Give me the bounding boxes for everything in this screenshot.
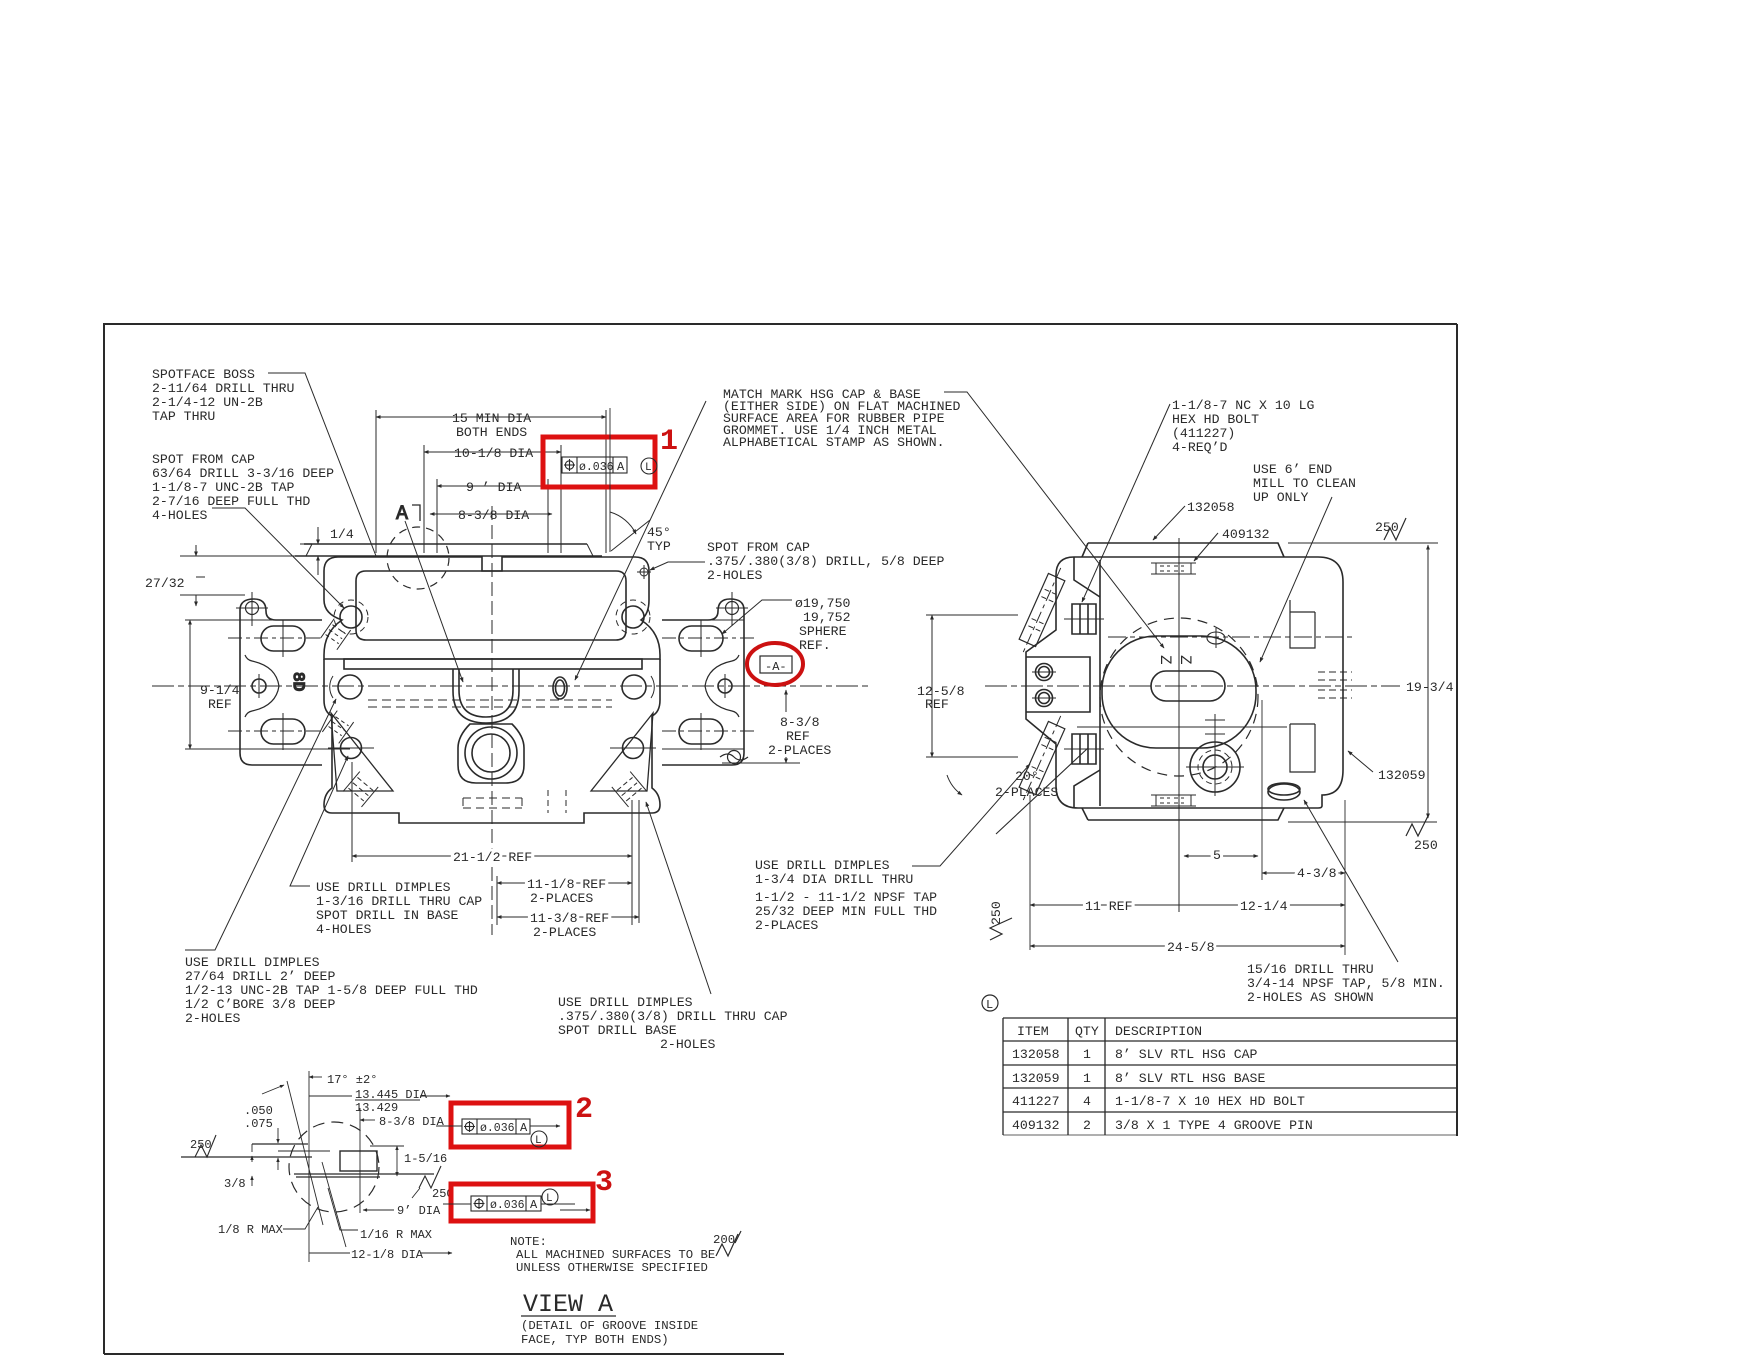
- svg-text:(DETAIL OF GROOVE INSIDE: (DETAIL OF GROOVE INSIDE: [521, 1319, 698, 1333]
- svg-text:132059: 132059: [1378, 768, 1425, 783]
- bolt boss top-left dashed thread circle: [334, 600, 368, 634]
- 13.445 limit bar: [355, 1099, 420, 1101]
- svg-text:5: 5: [1213, 848, 1221, 863]
- svg-text:1-1/2 - 11-1/2 NPSF TAP: 1-1/2 - 11-1/2 NPSF TAP: [755, 890, 937, 905]
- vertical line through x309: [308, 1071, 310, 1262]
- svg-text:1-3/4 DIA DRILL THRU: 1-3/4 DIA DRILL THRU: [755, 872, 913, 887]
- lower face line thick: [294, 1173, 434, 1175]
- svg-text:1/2 C’BORE 3/8 DEEP: 1/2 C’BORE 3/8 DEEP: [185, 997, 335, 1012]
- svg-text:1: 1: [660, 425, 678, 459]
- inner slant line: [322, 1162, 346, 1247]
- svg-text:250: 250: [1414, 838, 1438, 853]
- drain boss circle inner: [1203, 755, 1227, 779]
- svg-text:45°: 45°: [647, 525, 671, 540]
- interior vertical wall: [1099, 560, 1101, 806]
- 12-1/8 dim line: [309, 1252, 350, 1254]
- right flange C cutout: [705, 655, 739, 717]
- svg-text:3: 3: [595, 1166, 613, 1200]
- svg-text:L: L: [546, 1193, 553, 1205]
- bottom plate line: [1082, 808, 1284, 820]
- svg-text:SPOT FROM CAP: SPOT FROM CAP: [707, 540, 810, 555]
- right flange oval slot upper: [679, 626, 723, 651]
- svg-text:ALL MACHINED SURFACES TO BE: ALL MACHINED SURFACES TO BE: [516, 1248, 715, 1262]
- svg-text:1-3/16 DRILL THRU CAP: 1-3/16 DRILL THRU CAP: [316, 894, 482, 909]
- svg-text:11 REF: 11 REF: [1085, 899, 1132, 914]
- svg-text:2: 2: [1083, 1118, 1091, 1133]
- 250 finish right: [419, 1166, 441, 1188]
- fcf3 dim line: [541, 1203, 575, 1205]
- svg-text:8-3/8: 8-3/8: [780, 715, 820, 730]
- sheet border right: [1456, 324, 1458, 1136]
- svg-text:8-3/8 DIA: 8-3/8 DIA: [458, 508, 529, 523]
- svg-text:A: A: [520, 1121, 528, 1135]
- sheet border top: [104, 323, 1457, 325]
- groove pin ellipse mid-right: [553, 677, 567, 699]
- svg-text:250: 250: [190, 1138, 212, 1152]
- svg-text:USE DRILL DIMPLES: USE DRILL DIMPLES: [755, 858, 890, 873]
- dim 8-3/8 REF vertical right: [785, 690, 787, 712]
- svg-text:USE 6’ END: USE 6’ END: [1253, 462, 1332, 477]
- svg-text:Z: Z: [1176, 655, 1194, 665]
- dim 11 ref line: [1030, 904, 1179, 906]
- right view horizontal centerline: [985, 685, 1400, 687]
- svg-text:Z: Z: [1156, 655, 1174, 665]
- dim 12-1/4 line: [1179, 904, 1345, 906]
- dim 5 line: [1184, 855, 1258, 857]
- svg-text:15/16 DRILL THRU: 15/16 DRILL THRU: [1247, 962, 1374, 977]
- thread symbol mid-left: [322, 711, 353, 744]
- svg-text:2-PLACES: 2-PLACES: [533, 925, 596, 940]
- dim 8-3/8 line: [430, 513, 552, 515]
- right castellated steps: [1290, 600, 1315, 772]
- svg-text:8’ SLV RTL HSG BASE: 8’ SLV RTL HSG BASE: [1115, 1071, 1265, 1086]
- svg-text:24-5/8: 24-5/8: [1167, 940, 1215, 955]
- svg-text:19-3/4: 19-3/4: [1406, 680, 1454, 695]
- interior slant bottom: [1074, 770, 1100, 808]
- right flange top face line: [662, 619, 744, 621]
- svg-text:2-11/64 DRILL THRU: 2-11/64 DRILL THRU: [152, 381, 294, 396]
- drain boss circle outer: [1190, 742, 1240, 792]
- svg-text:2-PLACES: 2-PLACES: [768, 743, 831, 758]
- svg-text:SPOT DRILL BASE: SPOT DRILL BASE: [558, 1023, 677, 1038]
- svg-text:2-PLACES: 2-PLACES: [995, 785, 1058, 800]
- svg-text:250: 250: [1375, 520, 1399, 535]
- left gusset triangle: [331, 713, 393, 791]
- svg-text:8-3/8 DIA: 8-3/8 DIA: [379, 1115, 445, 1129]
- base body outline: [324, 659, 660, 823]
- groove pin side hole ellipse: [1268, 784, 1300, 800]
- spot dimple boss left on centerline: [338, 675, 362, 699]
- svg-text:ITEM: ITEM: [1017, 1024, 1049, 1039]
- svg-text:2-PLACES: 2-PLACES: [755, 918, 818, 933]
- angled boss lower-left: [1015, 712, 1070, 804]
- svg-text:VIEW A: VIEW A: [523, 1290, 613, 1319]
- flange centerline lower: [228, 730, 322, 732]
- pin hole lower: [1036, 690, 1053, 707]
- leader use drill dimples 1-3/4: [912, 764, 1030, 866]
- left flange C cutout: [245, 655, 279, 717]
- leader MATCH MARK right long: [944, 392, 1164, 648]
- spot dimple boss right on centerline: [622, 675, 646, 699]
- svg-text:1/16 R MAX: 1/16 R MAX: [360, 1228, 432, 1242]
- svg-text:.375/.380(3/8) DRILL THRU CAP: .375/.380(3/8) DRILL THRU CAP: [558, 1009, 788, 1024]
- center boss circle outer: [465, 727, 517, 779]
- right flange seat line: [662, 748, 744, 750]
- 1/16 R MAX leader: [328, 1188, 358, 1230]
- svg-text:L: L: [645, 462, 652, 474]
- svg-text:ALPHABETICAL STAMP AS SHOWN.: ALPHABETICAL STAMP AS SHOWN.: [723, 435, 945, 450]
- svg-text:9-1/4: 9-1/4: [200, 683, 240, 698]
- table outline: [1003, 1017, 1457, 1019]
- hidden dashed band lower: [368, 706, 612, 708]
- svg-text:REF.: REF.: [799, 638, 831, 653]
- svg-text:132058: 132058: [1187, 500, 1235, 515]
- svg-text:TYP: TYP: [647, 539, 671, 554]
- svg-text:3/8: 3/8: [224, 1177, 246, 1191]
- svg-text:SPHERE: SPHERE: [799, 624, 847, 639]
- 20 deg angle line: [996, 748, 1088, 834]
- upper face line: [252, 1143, 308, 1145]
- svg-text:1: 1: [1083, 1071, 1091, 1086]
- stadium boss around slot: [1102, 636, 1256, 748]
- spot hole small top-right: [640, 568, 648, 576]
- second face line: [278, 1150, 330, 1152]
- svg-text:1-1/8-7 UNC-2B TAP: 1-1/8-7 UNC-2B TAP: [152, 480, 295, 495]
- interior slant top: [1074, 557, 1100, 597]
- svg-text:USE DRILL DIMPLES: USE DRILL DIMPLES: [316, 880, 451, 895]
- svg-text:3/4-14 NPSF TAP, 5/8 MIN.: 3/4-14 NPSF TAP, 5/8 MIN.: [1247, 976, 1445, 991]
- center hidden notch below: [463, 798, 522, 808]
- svg-text:1/2-13 UNC-2B TAP 1-5/8 DEEP F: 1/2-13 UNC-2B TAP 1-5/8 DEEP FULL THD: [185, 983, 478, 998]
- svg-text:ø19,750: ø19,750: [795, 596, 850, 611]
- cap inner lip: [356, 571, 626, 640]
- svg-text:4-REQ’D: 4-REQ’D: [1172, 440, 1227, 455]
- right flange small hole: [718, 679, 732, 693]
- dim 1/4 vertical: [317, 527, 319, 544]
- svg-text:L: L: [535, 1135, 542, 1147]
- svg-text:.375/.380(3/8) DRILL, 5/8 DEEP: .375/.380(3/8) DRILL, 5/8 DEEP: [707, 554, 944, 569]
- saddle arc inner: [459, 669, 513, 717]
- 1-5/16 dim vertical: [396, 1146, 398, 1176]
- thread symbol lower-left: [343, 772, 378, 807]
- left flange oval slot lower: [261, 719, 305, 744]
- svg-text:8’ SLV RTL HSG CAP: 8’ SLV RTL HSG CAP: [1115, 1047, 1258, 1062]
- svg-text:9 ’ DIA: 9 ’ DIA: [466, 480, 521, 495]
- right gusset triangle: [591, 713, 653, 791]
- svg-text:11-3/8 REF: 11-3/8 REF: [530, 911, 609, 926]
- svg-text:-A-: -A-: [765, 660, 787, 674]
- dim 9 DIA line: [437, 485, 548, 487]
- bolt boss lower-right: [623, 738, 644, 759]
- svg-text:19,752: 19,752: [803, 610, 850, 625]
- svg-text:21-1/2 REF: 21-1/2 REF: [453, 850, 532, 865]
- svg-text:A: A: [396, 503, 408, 526]
- right flange S-hole top: [726, 602, 739, 615]
- svg-text:REF: REF: [208, 697, 232, 712]
- svg-text:2-7/16 DEEP FULL THD: 2-7/16 DEEP FULL THD: [152, 494, 310, 509]
- drain boss dashed circle: [1198, 750, 1232, 784]
- svg-text:9’ DIA: 9’ DIA: [397, 1204, 441, 1218]
- flange centerline upper right: [662, 637, 756, 639]
- svg-text:ø.036: ø.036: [480, 1122, 515, 1135]
- svg-text:1-1/8-7 X 10 HEX HD BOLT: 1-1/8-7 X 10 HEX HD BOLT: [1115, 1094, 1305, 1109]
- svg-text:NOTE:: NOTE:: [510, 1235, 547, 1249]
- dim 11-3/8 REF line: [497, 916, 639, 918]
- leader SPOTFACE BOSS: [268, 373, 376, 556]
- svg-text:FACE, TYP BOTH ENDS): FACE, TYP BOTH ENDS): [521, 1333, 669, 1347]
- finish 250 bottom right: [1406, 816, 1428, 836]
- center boss rounded square: [458, 724, 524, 783]
- thread symbol lower-right: [612, 772, 647, 807]
- svg-text:3/8 X 1 TYPE 4 GROOVE PIN: 3/8 X 1 TYPE 4 GROOVE PIN: [1115, 1118, 1313, 1133]
- dim 10-1/8 line: [424, 451, 561, 453]
- 8-3/8 dim arrow: [360, 1119, 375, 1121]
- left flange oval slot upper: [261, 626, 305, 651]
- bolt boss top-right circle: [622, 606, 644, 628]
- bottom small dashed marks: [548, 790, 566, 813]
- leader use drill dimples 1-3/16: [290, 756, 348, 886]
- svg-text:13.429: 13.429: [355, 1101, 398, 1115]
- 17 deg slant line: [287, 1081, 323, 1225]
- right view lower dashdot line: [1185, 726, 1230, 728]
- top groove pin section: [1151, 563, 1196, 574]
- svg-text:SPOT DRILL IN BASE: SPOT DRILL IN BASE: [316, 908, 459, 923]
- dim 27/32 bracket: [195, 545, 197, 556]
- svg-text:MILL TO CLEAN: MILL TO CLEAN: [1253, 476, 1356, 491]
- svg-text:SPOT FROM CAP: SPOT FROM CAP: [152, 452, 255, 467]
- svg-text:L: L: [986, 998, 993, 1012]
- bore dashed circle: [1100, 618, 1258, 776]
- dim 24-5/8 line: [1030, 945, 1345, 947]
- datum A rect: [760, 656, 792, 673]
- center boss circle inner: [472, 734, 510, 772]
- svg-text:4-3/8: 4-3/8: [1297, 866, 1337, 881]
- dim 11-1/8 REF line: [497, 882, 632, 884]
- right flange oval slot lower: [679, 719, 723, 744]
- thread symbol upper-left: [320, 619, 350, 650]
- view A underline: [521, 1315, 616, 1317]
- leader use 6 end mill: [1260, 497, 1332, 662]
- leader SPOT FROM CAP 63/64: [212, 508, 344, 608]
- svg-text:8D: 8D: [289, 672, 307, 691]
- top plate line: [1082, 543, 1284, 557]
- svg-text:2-HOLES AS SHOWN: 2-HOLES AS SHOWN: [1247, 990, 1374, 1005]
- finish 250 left rotated: [990, 918, 1012, 940]
- svg-text:27/64 DRILL 2’ DEEP: 27/64 DRILL 2’ DEEP: [185, 969, 335, 984]
- finish 250 top right: [1384, 518, 1406, 540]
- hex bolt lower left: [1072, 734, 1096, 764]
- svg-text:409132: 409132: [1222, 527, 1269, 542]
- svg-text:USE DRILL DIMPLES: USE DRILL DIMPLES: [185, 955, 320, 970]
- sheet border left: [103, 323, 105, 1354]
- machined face line left: [181, 1156, 312, 1158]
- dim 15 MIN DIA line: [376, 416, 606, 418]
- dim 19-3/4 vertical: [1427, 545, 1429, 818]
- svg-text:A: A: [530, 1198, 538, 1212]
- bottom groove pin section: [1151, 795, 1196, 806]
- detail dashed circle: [289, 1122, 379, 1212]
- 45 deg leader line: [611, 520, 650, 551]
- dim 4-3/8 line: [1262, 872, 1345, 874]
- svg-text:UNLESS OTHERWISE SPECIFIED: UNLESS OTHERWISE SPECIFIED: [516, 1261, 708, 1275]
- saddle arc outer: [453, 669, 519, 723]
- svg-text:.050: .050: [244, 1104, 273, 1118]
- small hole on upper dashdot: [1207, 632, 1225, 644]
- 3/8 dim arrows: [251, 1144, 253, 1152]
- svg-text:2-1/4-12 UN-2B: 2-1/4-12 UN-2B: [152, 395, 263, 410]
- svg-text:12-1/4: 12-1/4: [1240, 899, 1288, 914]
- body outline: [1026, 557, 1343, 808]
- fcf1 vertical ext line: [609, 408, 611, 552]
- svg-text:200: 200: [713, 1233, 735, 1247]
- svg-text:REF: REF: [786, 729, 810, 744]
- 45 deg arc: [610, 512, 636, 534]
- left flange top face line: [240, 619, 322, 621]
- left flange seat line: [240, 748, 322, 750]
- 13.445 dim line: [309, 1095, 352, 1097]
- flange centerline upper: [228, 637, 322, 639]
- svg-text:2-HOLES: 2-HOLES: [707, 568, 762, 583]
- right view vertical centerline: [1178, 538, 1180, 912]
- groove rect: [340, 1151, 377, 1171]
- fcf2 dim line: [530, 1125, 560, 1127]
- svg-text:QTY: QTY: [1075, 1024, 1099, 1039]
- svg-text:4-HOLES: 4-HOLES: [316, 922, 371, 937]
- svg-text:USE DRILL DIMPLES: USE DRILL DIMPLES: [558, 995, 693, 1010]
- svg-text:409132: 409132: [1012, 1118, 1059, 1133]
- leader MATCH MARK left long: [575, 401, 706, 680]
- svg-text:4: 4: [1083, 1094, 1091, 1109]
- .050 .075 arrows: [277, 1128, 279, 1143]
- hidden dashed band upper: [368, 699, 612, 701]
- leader hex bolt: [1082, 404, 1170, 602]
- svg-text:(411227): (411227): [1172, 426, 1235, 441]
- dim 10-1/8 ext right: [560, 445, 562, 553]
- svg-text:2-HOLES: 2-HOLES: [660, 1037, 715, 1052]
- fcf2 frame: [462, 1119, 530, 1134]
- right flange S-hole bottom: [728, 751, 741, 764]
- centerline horizontal left view: [152, 685, 872, 687]
- svg-text:12-1/8 DIA: 12-1/8 DIA: [351, 1248, 424, 1262]
- 250 finish left: [195, 1135, 216, 1157]
- svg-text:REF: REF: [925, 697, 949, 712]
- right hidden lip dashes: [1318, 672, 1352, 698]
- svg-text:.075: .075: [244, 1117, 273, 1131]
- svg-text:ø.036: ø.036: [490, 1199, 525, 1212]
- svg-text:17° ±2°: 17° ±2°: [327, 1073, 377, 1087]
- leader SPOT FROM CAP right: [650, 562, 705, 570]
- 17 dim tick: [309, 1076, 322, 1078]
- leader use drill dimples 375 thru cap: [646, 802, 711, 994]
- angled boss upper-left: [1015, 564, 1070, 656]
- svg-text:DESCRIPTION: DESCRIPTION: [1115, 1024, 1202, 1039]
- bolt boss top-left circle: [340, 606, 362, 628]
- spotface dashed circle on cap: [387, 527, 449, 589]
- svg-text:20°: 20°: [1015, 769, 1039, 784]
- leader sphere ref: [722, 600, 792, 634]
- dim 15 ext right: [605, 410, 607, 553]
- note finish symbol: [716, 1234, 738, 1256]
- leader 15/16 drill: [1304, 800, 1398, 962]
- left flange small hole: [252, 679, 266, 693]
- fcf3 frame: [471, 1196, 541, 1211]
- svg-text:BOTH ENDS: BOTH ENDS: [456, 425, 527, 440]
- 1/8 R MAX leader: [283, 1207, 318, 1229]
- svg-text:1/4: 1/4: [330, 527, 354, 542]
- oval slot: [1151, 671, 1225, 701]
- left flange S-hole top: [246, 602, 259, 615]
- right flange plate outline: [662, 599, 744, 765]
- svg-text:A: A: [617, 460, 625, 474]
- sheet border bottom: [104, 1353, 784, 1355]
- svg-text:132058: 132058: [1012, 1047, 1060, 1062]
- dim 12-5/8 vertical: [931, 615, 933, 757]
- svg-text:11-1/8 REF: 11-1/8 REF: [527, 877, 606, 892]
- dim 9-1/4 REF vertical: [189, 620, 191, 749]
- base cross bar: [344, 659, 642, 669]
- svg-text:13.445 DIA: 13.445 DIA: [355, 1088, 428, 1102]
- bolt boss lower-left: [341, 738, 362, 759]
- svg-text:250: 250: [989, 901, 1004, 925]
- hex bolt upper left: [1072, 604, 1096, 634]
- dim 15 ext left: [375, 410, 377, 553]
- small tick lower center: [1205, 714, 1225, 740]
- svg-text:1-1/8-7 NC X 10 LG: 1-1/8-7 NC X 10 LG: [1172, 398, 1315, 413]
- 17 deg arrow arc: [262, 1085, 284, 1094]
- svg-text:UP ONLY: UP ONLY: [1253, 490, 1308, 505]
- svg-text:25/32 DEEP MIN FULL THD: 25/32 DEEP MIN FULL THD: [755, 904, 937, 919]
- svg-text:4-HOLES: 4-HOLES: [152, 508, 207, 523]
- cap top machined plate: [312, 543, 587, 545]
- leader 132059: [1348, 751, 1373, 772]
- svg-text:1-5/16: 1-5/16: [404, 1152, 447, 1166]
- svg-text:15 MIN DIA: 15 MIN DIA: [452, 411, 531, 426]
- leader 132058: [1153, 506, 1185, 540]
- circled L near table: [982, 995, 998, 1011]
- svg-text:1: 1: [1083, 1047, 1091, 1062]
- view A leader arrow: [405, 521, 463, 682]
- vertical line x360: [359, 1108, 361, 1213]
- bolt boss top-right dashed thread circle: [616, 600, 650, 634]
- pin hole upper: [1036, 664, 1053, 681]
- 9 dia arrow: [363, 1209, 394, 1211]
- Z stamp marks: [1156, 655, 1194, 665]
- flange centerline lower right: [662, 730, 756, 732]
- left pocket lines: [1026, 657, 1090, 712]
- svg-text:2: 2: [575, 1093, 593, 1127]
- leader 409132: [1194, 533, 1218, 561]
- svg-text:SPOTFACE BOSS: SPOTFACE BOSS: [152, 367, 255, 382]
- red box 2: [451, 1103, 569, 1147]
- svg-text:2-PLACES: 2-PLACES: [530, 891, 593, 906]
- svg-text:1/8 R MAX: 1/8 R MAX: [218, 1223, 283, 1237]
- leader use drill dimples 27/64: [185, 699, 336, 950]
- dim 9 ext right: [547, 479, 549, 553]
- svg-text:411227: 411227: [1012, 1094, 1059, 1109]
- cap outer outline: [324, 557, 660, 659]
- svg-text:132059: 132059: [1012, 1071, 1059, 1086]
- right view upper dashdot line: [1108, 636, 1356, 638]
- svg-text:10-1/8 DIA: 10-1/8 DIA: [454, 446, 533, 461]
- svg-text:27/32: 27/32: [145, 576, 185, 591]
- svg-text:63/64 DRILL 3-3/16 DEEP: 63/64 DRILL 3-3/16 DEEP: [152, 466, 334, 481]
- red ellipse datum A: [747, 643, 803, 685]
- red box 1: [543, 437, 655, 487]
- red box 3: [451, 1184, 593, 1221]
- dim 9 ext left: [436, 479, 438, 553]
- fcf1 frame: [562, 457, 627, 473]
- horizontal split line: [1077, 726, 1287, 728]
